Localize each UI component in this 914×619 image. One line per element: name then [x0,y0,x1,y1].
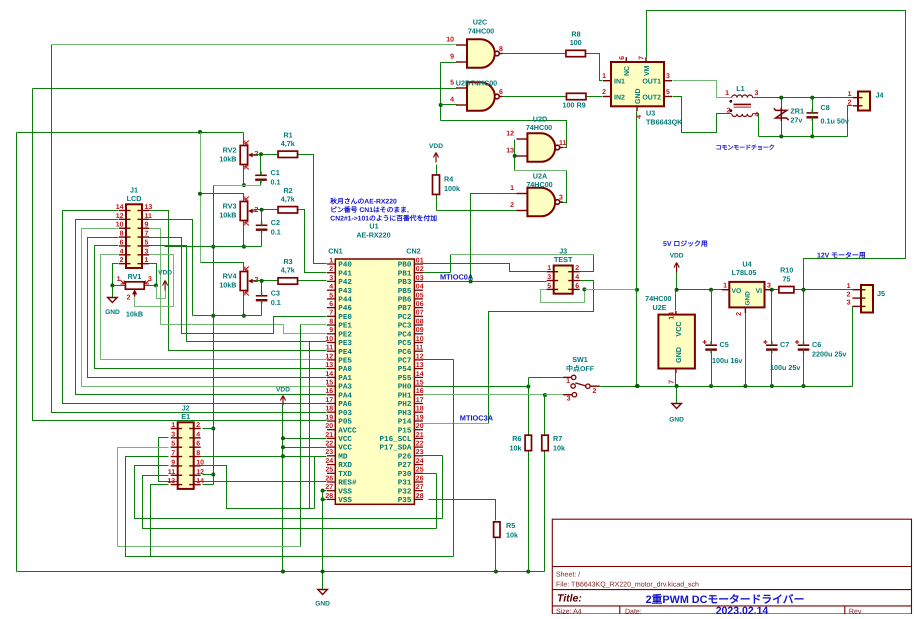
wire [113,285,126,287]
power symbol VDD (RV1) [163,281,168,291]
svg-text:R2: R2 [283,186,292,195]
svg-text:8: 8 [120,231,124,238]
junction [321,570,325,574]
wire [501,53,567,55]
svg-text:2: 2 [196,422,200,429]
wire [489,281,594,424]
svg-text:C5: C5 [720,340,729,349]
resistor R3 [278,257,298,284]
svg-text:7: 7 [669,380,676,384]
svg-text:8: 8 [499,46,503,53]
junction [635,288,639,292]
svg-text:P40: P40 [338,261,352,270]
wire [647,11,906,290]
wire [323,499,327,501]
wire [636,112,638,387]
svg-text:13: 13 [325,362,333,369]
svg-text:3: 3 [767,283,771,290]
svg-text:1: 1 [329,257,333,264]
svg-text:10kB: 10kB [219,281,236,290]
svg-text:P44: P44 [338,296,352,304]
wire [33,89,327,421]
svg-text:C3: C3 [271,289,280,298]
svg-text:02: 02 [416,266,424,273]
svg-text:P41: P41 [338,270,352,278]
svg-text:13: 13 [167,478,175,485]
svg-text:LCD: LCD [127,194,142,203]
svg-text:PB0: PB0 [398,261,412,270]
svg-text:100u 25v: 100u 25v [770,363,800,372]
svg-text:ZR1: ZR1 [790,107,804,116]
svg-text:2200u 25v: 2200u 25v [812,350,846,359]
wire [586,54,603,81]
svg-text:3: 3 [547,274,551,281]
svg-text:13: 13 [416,362,424,369]
junction [513,154,517,158]
wire [437,210,528,212]
svg-text:GND: GND [674,347,683,363]
svg-text:3: 3 [329,275,333,282]
svg-text:P32: P32 [398,487,412,496]
junction [582,287,586,291]
wire [673,81,732,98]
junction [770,288,774,292]
wire [453,360,455,557]
junction [802,384,806,388]
svg-text:10: 10 [416,336,424,343]
svg-text:20: 20 [325,423,333,430]
wire [298,210,327,273]
svg-text:7: 7 [145,231,149,238]
svg-text:26: 26 [325,475,333,482]
svg-text:PA3: PA3 [338,383,352,392]
svg-text:0.1: 0.1 [271,298,281,307]
resistor R10 [779,266,794,293]
svg-text:VDD: VDD [429,143,443,150]
wire [157,286,166,299]
junction [469,279,473,283]
wire [52,44,457,46]
svg-text:AE-RX220: AE-RX220 [356,231,390,240]
svg-text:PH1: PH1 [398,392,412,400]
capacitor C7 [763,340,777,353]
wire [201,456,283,458]
wire [848,106,853,137]
wire [165,246,262,248]
svg-text:C1: C1 [271,168,280,177]
svg-text:3: 3 [666,73,670,80]
connector J5 [852,285,873,313]
svg-text:24: 24 [416,458,424,465]
svg-text:秋月さんのAE-RX220: 秋月さんのAE-RX220 [330,197,397,205]
svg-text:PE0: PE0 [338,313,352,322]
svg-text:PH2: PH2 [398,400,412,409]
svg-text:2: 2 [127,295,131,302]
svg-text:26: 26 [416,475,424,482]
svg-text:VM: VM [644,65,651,76]
wire [528,387,530,436]
wire [514,140,516,171]
wire [112,286,114,298]
wire [441,104,457,106]
wire [423,264,547,272]
capacitor C5 [703,340,717,353]
potentiometer RV3 [240,197,255,226]
svg-text:P05: P05 [338,418,352,427]
wire [673,97,732,133]
wire [260,155,262,176]
svg-text:R1: R1 [283,130,292,139]
wire [145,285,157,287]
svg-text:P35: P35 [398,496,412,505]
wire [423,455,443,457]
svg-text:2: 2 [727,108,731,115]
junction [802,288,806,292]
svg-text:1: 1 [723,283,727,290]
junction [281,570,285,574]
wire [676,273,678,290]
svg-text:VDD: VDD [158,270,172,277]
wire [423,359,454,361]
wire [213,186,215,485]
wire [16,133,18,572]
svg-text:Title:: Title: [557,593,582,605]
wire [101,255,327,360]
svg-text:5: 5 [329,292,333,299]
wire [254,280,279,282]
svg-text:12V モーター用: 12V モーター用 [817,252,866,260]
junction [260,279,264,283]
junction [494,570,498,574]
junction [743,384,747,388]
wire [541,290,585,303]
svg-text:PA0: PA0 [338,365,352,374]
svg-text:27: 27 [416,484,424,491]
svg-text:27v: 27v [790,116,802,125]
svg-text:R4: R4 [444,175,453,184]
svg-text:VSS: VSS [338,487,352,496]
wire [441,62,457,64]
wire [82,229,327,387]
svg-text:1: 1 [848,91,852,98]
svg-text:3: 3 [567,395,571,402]
svg-text:74HC00: 74HC00 [645,294,671,303]
svg-text:14: 14 [196,478,204,485]
svg-text:P27: P27 [398,461,412,470]
svg-text:4: 4 [196,431,200,438]
wire [201,194,244,202]
junction [110,283,114,287]
svg-text:R5: R5 [506,521,515,530]
wire [451,254,594,256]
potentiometer RV4 [240,267,255,296]
inductor L1 common mode choke [729,95,752,117]
svg-text:SW1: SW1 [572,355,588,364]
svg-text:12: 12 [416,353,424,360]
svg-text:R7: R7 [553,434,562,443]
svg-text:13: 13 [506,148,514,155]
zener diode ZR1 [774,108,789,122]
wire [544,451,546,572]
wire [201,466,315,509]
svg-text:6: 6 [619,56,626,60]
svg-text:PE5: PE5 [338,358,352,366]
svg-text:P14: P14 [398,419,412,427]
svg-text:VCC: VCC [674,321,683,336]
svg-text:AVCC: AVCC [338,426,357,435]
svg-text:4,7k: 4,7k [281,139,295,148]
junction [779,96,783,100]
svg-text:VCC: VCC [338,435,352,444]
svg-text:100: 100 [570,38,582,47]
svg-text:R8: R8 [571,30,580,39]
wire [423,394,545,396]
wire [711,290,713,346]
wire [812,98,814,113]
wire [529,377,564,379]
resistor R2 [278,186,298,213]
wire [149,229,161,325]
svg-text:P17_SDA: P17_SDA [379,444,411,453]
resistor R1 [278,130,298,157]
svg-text:5: 5 [666,89,670,96]
svg-text:15: 15 [325,379,333,386]
svg-text:U2C: U2C [473,18,487,27]
svg-text:9: 9 [145,222,149,229]
svg-text:16: 16 [325,388,333,395]
svg-text:RV1: RV1 [128,272,142,281]
ground symbol (center) [318,590,328,595]
svg-text:L1: L1 [736,84,744,93]
wire [95,246,327,369]
svg-text:R3: R3 [283,257,292,266]
junction [779,134,783,138]
svg-text:28: 28 [325,493,333,500]
svg-text:1: 1 [847,283,851,290]
wire [423,473,437,475]
junction [636,384,640,388]
wire [149,211,327,351]
wire [423,281,547,283]
wire [580,255,594,272]
wire [63,211,327,404]
wire [261,301,263,316]
svg-text:P26: P26 [398,452,412,461]
wire [440,63,442,121]
potentiometer RV2 [240,141,255,170]
svg-text:GND: GND [745,291,752,306]
svg-text:PA4: PA4 [338,392,352,400]
connector J3 [547,265,580,294]
svg-text:7: 7 [329,310,333,317]
svg-text:CN2: CN2 [406,246,420,255]
svg-text:U2D: U2D [533,114,547,123]
junction [439,103,443,107]
wire [781,121,783,137]
junction [810,134,814,138]
svg-text:C2: C2 [271,218,280,227]
svg-text:P15: P15 [398,427,412,435]
svg-text:5: 5 [547,283,551,290]
capacitor C8 [807,109,819,121]
wire [298,280,327,282]
wire [471,194,528,282]
wire [436,165,438,175]
svg-text:RV2: RV2 [223,146,237,155]
junction [242,314,246,318]
wire [149,264,157,286]
svg-text:09: 09 [416,327,424,334]
svg-text:OUT2: OUT2 [642,94,661,101]
wire [135,255,174,307]
svg-text:9: 9 [329,327,333,334]
svg-text:5: 5 [145,239,149,246]
wire [283,456,327,458]
wire [423,423,489,425]
svg-text:19: 19 [416,414,424,421]
wire [495,539,497,572]
svg-text:2: 2 [575,265,579,272]
svg-text:2: 2 [120,257,124,264]
ground symbol (RV1) [108,298,118,303]
junction [211,427,215,431]
wire [126,457,454,557]
svg-text:10: 10 [446,37,454,44]
svg-text:10k: 10k [553,444,565,453]
svg-text:U2E: U2E [653,303,667,312]
wire [135,466,443,519]
svg-text:PC6: PC6 [398,348,412,357]
svg-text:12: 12 [196,469,204,476]
connector J4 [853,92,870,111]
wire [753,114,759,137]
wire [323,490,327,492]
svg-text:10k: 10k [506,531,518,540]
svg-text:12: 12 [325,353,333,360]
svg-text:PH3: PH3 [398,409,412,418]
svg-text:100k: 100k [444,184,460,193]
svg-text:CN1: CN1 [328,246,342,255]
junction [675,384,679,388]
wire [794,289,857,291]
svg-text:3: 3 [559,195,563,202]
svg-text:VCC: VCC [338,444,352,453]
svg-text:25: 25 [416,467,424,474]
svg-text:Rev: Rev [849,608,862,614]
svg-text:GND: GND [315,601,330,608]
resistor R4 [433,175,440,195]
MCU module U1 AE-RX220 [325,257,423,505]
svg-text:2: 2 [847,291,851,298]
svg-text:5: 5 [171,441,175,448]
wire [545,394,564,396]
wire [203,474,214,476]
svg-text:PH0: PH0 [398,383,412,392]
junction [281,445,285,449]
svg-text:17: 17 [325,397,333,404]
wire [781,98,783,108]
svg-text:11: 11 [416,345,424,352]
svg-text:3: 3 [755,90,759,97]
svg-text:5V ロジック用: 5V ロジック用 [663,240,708,248]
svg-text:U3: U3 [646,109,655,118]
svg-text:VI: VI [756,288,763,295]
wire [282,405,284,572]
wire [283,447,327,449]
svg-text:0.1u 50v: 0.1u 50v [821,117,849,126]
wire [450,255,452,273]
wire [17,132,244,134]
svg-text:3: 3 [847,300,851,307]
wire [203,484,214,486]
svg-text:PA6: PA6 [338,400,352,409]
svg-text:P30: P30 [398,470,412,479]
svg-text:2: 2 [510,202,514,209]
svg-text:14: 14 [669,312,676,320]
svg-text:P43: P43 [338,287,352,296]
resistor R6 [525,435,531,451]
wire [149,254,174,256]
svg-text:OUT1: OUT1 [642,79,661,86]
svg-text:C8: C8 [821,103,830,112]
svg-text:11: 11 [145,213,153,220]
wire [803,290,805,346]
junction [709,288,713,292]
wire [243,133,245,146]
svg-text:23: 23 [416,449,424,456]
power symbol VDD (VCC pins) [280,396,285,406]
wire [201,263,244,272]
junction [526,385,530,389]
resistor R8 [566,30,586,57]
wire [442,456,444,519]
svg-text:3: 3 [171,431,175,438]
svg-text:10k: 10k [510,444,522,453]
wire [261,210,263,226]
svg-text:PB3: PB3 [398,278,412,287]
svg-text:VSS: VSS [338,496,352,505]
wire [745,313,747,387]
wire [773,289,779,291]
wire [301,324,327,326]
svg-text:15: 15 [416,379,424,386]
svg-text:VDD: VDD [670,253,684,260]
svg-text:U2B: U2B [456,79,470,88]
wire [161,325,327,334]
svg-text:11: 11 [326,345,334,352]
junction [198,130,202,134]
wire [149,220,193,316]
svg-text:PB7: PB7 [398,305,412,313]
svg-text:P55: P55 [398,375,412,383]
wire [309,342,311,509]
svg-text:03: 03 [416,275,424,282]
svg-text:2: 2 [254,149,258,158]
svg-text:28: 28 [416,493,424,500]
junction [321,497,325,501]
svg-text:IN1: IN1 [614,79,625,86]
capacitor C3 [256,292,268,304]
svg-text:RV3: RV3 [223,202,237,211]
wire [151,485,169,557]
svg-text:4: 4 [329,284,333,291]
svg-text:23: 23 [325,449,333,456]
wire [436,474,438,529]
svg-text:GND: GND [105,309,120,316]
svg-text:7: 7 [171,450,175,457]
svg-text:74HC00: 74HC00 [526,180,552,189]
junction [211,245,215,249]
